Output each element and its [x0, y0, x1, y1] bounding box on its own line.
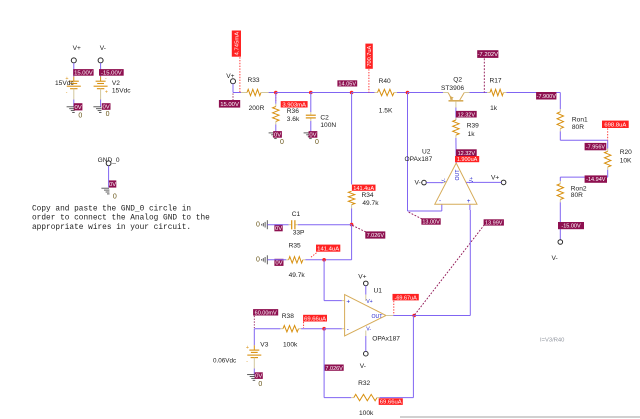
svg-text:R36: R36: [287, 108, 299, 115]
current label 4.745mA with leader: [232, 31, 241, 93]
svg-text:141.4uA: 141.4uA: [317, 246, 339, 252]
svg-text:0: 0: [315, 139, 319, 146]
svg-text:100k: 100k: [359, 410, 374, 417]
terminal V+ of U1: [358, 274, 368, 301]
node G junction at U1 -input: [322, 327, 326, 331]
wire node C to R40: [352, 92, 375, 94]
bias label 13.99V with long leader: [415, 219, 504, 315]
bias label 15.00V on V1: [73, 69, 93, 76]
svg-text:14.05V: 14.05V: [338, 82, 356, 88]
svg-text:OPAx187: OPAx187: [372, 336, 400, 343]
resistor R39 1k from U2 output to Q2 base: [453, 108, 479, 164]
page border line bottom: [400, 416, 640, 418]
note text block: [32, 205, 210, 232]
wire R40 to node D: [397, 92, 408, 94]
current label -69.67uA with leader: [393, 294, 419, 315]
svg-text:V-: V-: [100, 45, 106, 52]
svg-text:V+: V+: [491, 174, 499, 181]
svg-text:Q2: Q2: [453, 76, 462, 83]
svg-text:-69.67uA: -69.67uA: [394, 295, 417, 301]
current label 69.66uA at R32: [379, 398, 403, 405]
op-amp U1 OPAx187: [345, 287, 401, 342]
wire node D to Q2 emitter: [408, 92, 444, 94]
svg-text:1k: 1k: [468, 131, 476, 138]
svg-text:R33: R33: [248, 77, 260, 84]
capacitor C1 33P: [267, 211, 351, 236]
svg-text:R39: R39: [467, 122, 479, 129]
wire R33 to node A: [269, 92, 276, 94]
resistor R34 49.7k vertical: [348, 191, 379, 224]
svg-text:0: 0: [258, 381, 262, 388]
resistor R17 1k: [487, 78, 506, 113]
svg-text:0: 0: [113, 193, 117, 200]
svg-text:100N: 100N: [320, 122, 336, 129]
svg-text:V+: V+: [73, 45, 81, 52]
svg-text:V-: V-: [360, 363, 366, 370]
svg-text:+: +: [246, 345, 249, 351]
wire node G to U1 -input: [324, 328, 345, 330]
bias label 14.05V at node C: [337, 80, 357, 86]
svg-text:0: 0: [256, 222, 260, 229]
resistor Ron2 80R: [557, 181, 587, 202]
svg-text:0V: 0V: [274, 133, 281, 139]
svg-text:141.4uA: 141.4uA: [353, 186, 374, 192]
svg-text:0: 0: [106, 111, 110, 118]
node E junction R34/C1: [350, 223, 354, 227]
wire R20 to Ron2: [560, 170, 607, 181]
ground of V3: [247, 374, 255, 376]
svg-text:0: 0: [280, 139, 284, 146]
svg-text:R20: R20: [620, 149, 632, 156]
svg-text:-14.94V: -14.94V: [586, 177, 606, 183]
bias label 60.00mV with leader: [253, 309, 278, 328]
node D junction: [406, 91, 410, 95]
svg-text:-7.956V: -7.956V: [586, 145, 606, 151]
svg-text:R17: R17: [490, 78, 502, 85]
svg-text:ST3906: ST3906: [441, 85, 464, 92]
svg-text:-: -: [66, 90, 68, 96]
svg-text:-: -: [105, 76, 107, 82]
bias label 0V on C1 ground: [274, 224, 282, 231]
wire Q2 collector to R17: [470, 92, 488, 94]
svg-text:60.00mV: 60.00mV: [255, 310, 277, 316]
svg-text:69.66uA: 69.66uA: [304, 316, 326, 322]
svg-text:-15.00V: -15.00V: [101, 71, 122, 77]
svg-text:69.66uA: 69.66uA: [380, 400, 402, 406]
svg-text:4.745mA: 4.745mA: [235, 32, 241, 56]
ground of R35 (left): [256, 255, 267, 264]
current label 1.900uA at U2 output: [455, 156, 479, 162]
capacitor C2 100N vertical: [306, 93, 337, 133]
svg-text:R32: R32: [358, 380, 370, 387]
bias label 13.00V with leader: [409, 212, 441, 225]
svg-text:49.7k: 49.7k: [362, 200, 379, 207]
resistor R36 3.6k vertical: [273, 93, 300, 133]
current label 141.4uA at R34: [352, 185, 376, 191]
svg-text:80R: 80R: [571, 192, 583, 199]
svg-text:15.00V: 15.00V: [74, 71, 93, 77]
svg-text:10K: 10K: [620, 157, 632, 164]
svg-text:R35: R35: [289, 243, 301, 250]
svg-text:15Vdc: 15Vdc: [112, 88, 131, 95]
svg-text:33P: 33P: [293, 229, 305, 236]
current label 3.903mA with leader: [276, 94, 308, 108]
bias label 0V on GND_0: [109, 180, 116, 187]
svg-text:-15.00V: -15.00V: [561, 224, 581, 230]
U1 output wire to node H: [386, 315, 414, 317]
ground of V1: [67, 107, 75, 113]
svg-text:0V: 0V: [275, 260, 282, 266]
node A junction: [274, 91, 278, 95]
svg-text:C2: C2: [320, 114, 329, 121]
svg-text:-: -: [439, 198, 441, 205]
bias label 0V on R36 ground: [273, 131, 282, 138]
current label 698.8uA with leader: [602, 121, 629, 141]
svg-text:12.32V: 12.32V: [458, 112, 476, 118]
svg-text:+: +: [105, 90, 108, 96]
svg-text:+: +: [467, 198, 471, 205]
op-amp U2 OPAx187: [405, 148, 478, 205]
svg-text:V2: V2: [112, 80, 120, 87]
ground of V2: [93, 107, 101, 113]
U2 +input stub: [469, 204, 471, 210]
resistor R38 100k: [254, 313, 324, 349]
ground of GND_0: [101, 188, 109, 194]
wire node D down to U2 -input: [408, 93, 442, 212]
node GND_0 terminal: [98, 157, 120, 187]
bias label 15.00V at V+ node: [219, 94, 240, 108]
svg-text:0V: 0V: [255, 374, 262, 380]
wire node C down to R34: [351, 93, 353, 185]
bias label 0V on V1 ground: [74, 103, 83, 110]
svg-text:0V: 0V: [74, 105, 81, 111]
svg-text:200R: 200R: [249, 105, 265, 112]
svg-text:C1: C1: [292, 211, 301, 218]
svg-text:V-: V-: [552, 255, 558, 262]
bias label -7.900V on wire: [536, 92, 556, 100]
bias label 7.026V with leader at node E: [352, 225, 385, 239]
current label 69.66uA at R38 with leader: [303, 315, 327, 328]
wire V+ to R33: [233, 92, 241, 94]
resistor R20 10K: [605, 149, 633, 170]
bias label 12.32V at Q2 base: [456, 111, 477, 118]
svg-text:700.7uA: 700.7uA: [367, 46, 373, 67]
bias label 0V on V3 ground: [255, 372, 263, 379]
node H junction at U1 output: [412, 314, 416, 318]
svg-text:V+: V+: [366, 299, 373, 305]
node F junction: [322, 258, 326, 262]
svg-text:+: +: [346, 299, 350, 306]
ground of R36: [269, 132, 277, 134]
voltage source V3 0.06Vdc: [213, 329, 269, 376]
svg-text:Ron1: Ron1: [572, 116, 588, 123]
bias label 0V on R35 ground: [274, 259, 283, 266]
svg-text:0V: 0V: [275, 226, 282, 232]
wire Ron1 to R20: [560, 131, 607, 148]
svg-text:1k: 1k: [490, 105, 498, 112]
current label 700.7uA with leader: [365, 44, 373, 93]
wire Ron2 to V- terminal: [559, 202, 561, 239]
transistor Q2 ST3906: [441, 76, 470, 107]
voltage source V1 (V+ 15Vdc): [55, 45, 81, 107]
wire node B to node C: [311, 92, 352, 94]
voltage source V2 (V- 15Vdc): [94, 45, 132, 107]
svg-text:15Vdc: 15Vdc: [55, 80, 74, 87]
svg-text:0: 0: [78, 112, 82, 119]
bias label 0V on C2 ground: [309, 131, 318, 138]
svg-text:OUT: OUT: [372, 314, 384, 320]
resistor Ron1 80R: [557, 109, 588, 131]
terminal V- of U2: [415, 180, 447, 187]
bias label -15.00V on wire: [558, 222, 584, 229]
svg-text:12.32V: 12.32V: [458, 151, 476, 157]
wire R17 to Ron1 corner: [506, 93, 560, 110]
svg-text:-7.900V: -7.900V: [537, 94, 557, 100]
bias label 12.32V at U2 output: [456, 149, 477, 156]
svg-text:Copy and paste the GND_0 circl: Copy and paste the GND_0 circle in: [32, 205, 191, 213]
svg-text:13.99V: 13.99V: [485, 221, 503, 227]
node B junction: [309, 91, 313, 95]
wire node H to U2 +input: [414, 210, 470, 316]
terminal V- bottom right: [552, 240, 563, 262]
svg-text:0V: 0V: [109, 182, 116, 188]
svg-text:V-: V-: [366, 327, 371, 333]
svg-text:OUT: OUT: [455, 169, 461, 181]
svg-text:V+: V+: [358, 274, 366, 281]
svg-text:U2: U2: [422, 148, 431, 155]
resistor R35 49.7k: [267, 243, 324, 279]
svg-text:80R: 80R: [572, 124, 584, 131]
bias label -15.00V on V2: [99, 69, 124, 76]
svg-text:15.00V: 15.00V: [220, 102, 239, 108]
svg-text:0V: 0V: [103, 105, 110, 111]
resistor R32 100k feedback: [324, 316, 413, 418]
ground of C2: [304, 132, 312, 134]
svg-text:3.6k: 3.6k: [287, 116, 300, 123]
svg-text:0.06Vdc: 0.06Vdc: [213, 358, 236, 365]
svg-text:appropriate wires in your circ: appropriate wires in your circuit.: [32, 224, 191, 232]
svg-text:100k: 100k: [283, 342, 298, 349]
bias label -7.202V with leader: [477, 50, 498, 92]
svg-text:U1: U1: [374, 287, 383, 294]
wire node A to node B: [276, 92, 311, 94]
svg-text:698.8uA: 698.8uA: [604, 122, 626, 128]
svg-text:-: -: [246, 359, 248, 365]
svg-text:R34: R34: [362, 192, 374, 199]
svg-text:7.026V: 7.026V: [325, 366, 343, 372]
ground of C1 (left): [256, 220, 267, 229]
svg-text:-7.202V: -7.202V: [477, 52, 498, 58]
terminal V+ at R33 input: [226, 73, 235, 92]
node C junction: [350, 91, 354, 95]
svg-text:1.900uA: 1.900uA: [457, 157, 478, 163]
resistor R33 200R: [241, 77, 269, 112]
bias label 0V on V2 ground: [102, 103, 111, 110]
svg-text:49.7k: 49.7k: [289, 272, 306, 279]
wire node F to U1 +input: [324, 260, 345, 301]
svg-text:-: -: [347, 326, 349, 333]
svg-text:13.00V: 13.00V: [422, 220, 440, 226]
svg-text:0: 0: [256, 257, 260, 264]
current label 141.4uA at R35 with leader: [311, 245, 340, 258]
bias label -14.94V on wire: [585, 175, 607, 182]
svg-text:R40: R40: [379, 78, 391, 85]
svg-text:0V: 0V: [309, 133, 316, 139]
svg-text:I=V3/R40: I=V3/R40: [540, 337, 564, 343]
wire node E down and left to node F: [324, 225, 352, 260]
svg-text:7.026V: 7.026V: [367, 233, 385, 239]
svg-text:order to connect the Analog GN: order to connect the Analog GND to the: [32, 215, 210, 223]
terminal V- of U1: [360, 331, 368, 370]
svg-text:R38: R38: [282, 313, 294, 320]
svg-text:1.5K: 1.5K: [379, 108, 393, 115]
bias label -7.956V on wire: [585, 143, 607, 150]
resistor R40 1.5K: [375, 78, 398, 115]
svg-text:V-: V-: [415, 180, 421, 187]
terminal V+ of U2: [466, 174, 506, 184]
svg-text:OPAx187: OPAx187: [405, 156, 433, 163]
svg-text:V3: V3: [260, 341, 268, 348]
bias label 7.026V at R32 left: [325, 365, 344, 371]
